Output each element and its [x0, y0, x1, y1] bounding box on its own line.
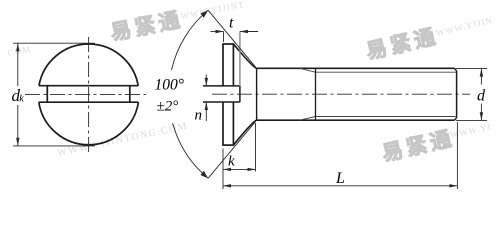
- shank bottom line: [257, 119, 455, 121]
- head top edge: [222, 43, 234, 45]
- d extension line top: [456, 67, 487, 69]
- head rim line (upper part): [232, 44, 234, 86]
- slot upper chord: [39, 85, 138, 87]
- thread runout diagonal bottom: [300, 117, 316, 121]
- head outline circle d_k: [39, 44, 138, 86]
- slot lower chord: [39, 101, 139, 103]
- angle arc top segment: [172, 10, 209, 70]
- end chamfer top: [454, 68, 456, 71]
- angle arc bottom segment: [173, 123, 209, 178]
- cone curve bottom: [233, 120, 256, 145]
- svg-text:d: d: [477, 88, 486, 105]
- shank top line: [257, 67, 455, 69]
- t extension line right: [239, 32, 241, 87]
- arc arrow top: [201, 10, 209, 18]
- angle leg top: [208, 10, 257, 68]
- svg-text:k: k: [19, 94, 24, 105]
- d_k bottom extension line: [13, 145, 95, 147]
- head face line (lower part): [222, 102, 224, 145]
- k dimension line: [223, 168, 256, 170]
- end chamfer bottom: [454, 118, 456, 121]
- watermark band C (bottom-left): [56, 120, 189, 158]
- svg-text:100°: 100°: [155, 77, 184, 94]
- vertical centerline: [88, 37, 90, 153]
- svg-text:±2°: ±2°: [157, 99, 179, 115]
- d_k top extension line: [13, 42, 95, 44]
- thread minor line top: [316, 71, 456, 73]
- arc arrow bottom: [201, 171, 209, 179]
- axis centerline: [212, 93, 470, 95]
- t dimension line left: [211, 31, 224, 33]
- watermark band B (top-right): [364, 11, 496, 64]
- head rim line (lower part): [232, 102, 234, 145]
- t extension line left: [223, 32, 225, 43]
- k extension line left / L extension left: [222, 149, 224, 190]
- head outline lower arc: [39, 102, 139, 145]
- svg-text:k: k: [228, 154, 235, 170]
- slot depth edge: [239, 86, 241, 102]
- end face line: [456, 71, 458, 118]
- t dimension line right: [240, 31, 258, 33]
- slot top line: [203, 85, 240, 87]
- n dimension upper arrow: [205, 75, 207, 86]
- head face line (upper part): [222, 44, 224, 86]
- head/shank junction line: [256, 68, 258, 120]
- head bottom edge: [222, 144, 234, 146]
- thread minor line bottom: [316, 116, 456, 118]
- k extension line right: [255, 123, 257, 172]
- watermark band D (bottom-right): [380, 117, 495, 166]
- thread runout diagonal top: [300, 68, 316, 72]
- L extension line right: [456, 122, 458, 189]
- L dimension line: [223, 185, 457, 187]
- horizontal centerline: [25, 93, 146, 95]
- cone curve top: [233, 44, 256, 68]
- thread start line: [315, 68, 317, 120]
- angle leg bottom: [208, 120, 257, 178]
- n dimension lower arrow: [205, 102, 207, 121]
- watermark band A (top-center): [2, 0, 247, 66]
- slot left end line: [46, 86, 48, 103]
- slot bottom line: [203, 101, 240, 103]
- svg-text:n: n: [195, 108, 203, 124]
- d extension line bottom: [456, 119, 487, 121]
- d_k dimension line: [17, 43, 19, 86]
- slot right end line: [129, 86, 131, 103]
- svg-text:t: t: [229, 15, 234, 32]
- svg-text:L: L: [335, 170, 345, 187]
- d dimension line: [480, 68, 482, 84]
